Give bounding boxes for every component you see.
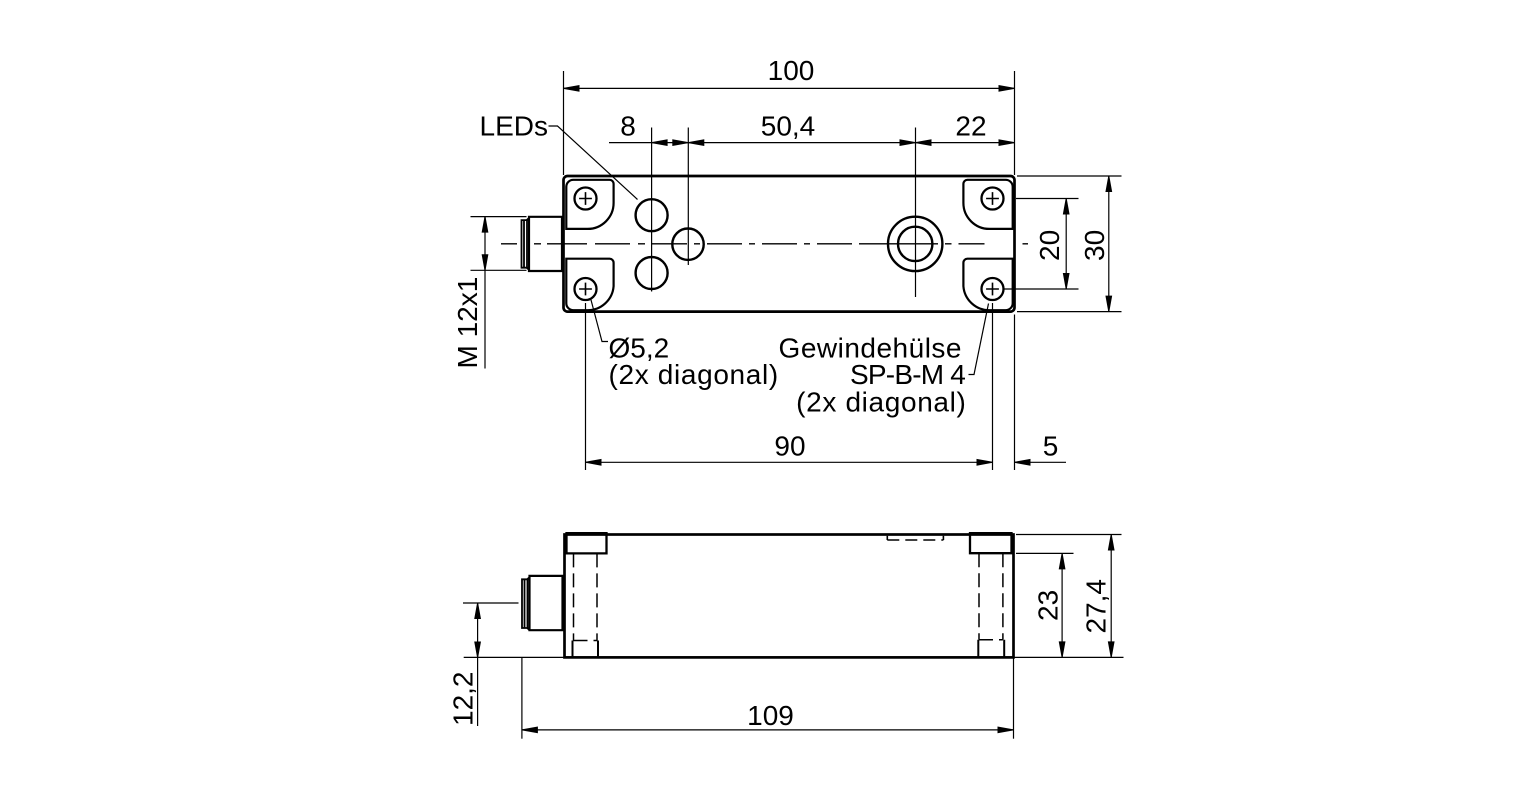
small hole on centerline — [672, 229, 703, 260]
dim 22 line — [916, 142, 1015, 144]
dim 100 extension right — [1014, 71, 1016, 175]
dim M12x1 extension top — [471, 216, 527, 218]
dim 5 tail — [1015, 461, 1067, 463]
connector M12 top view body — [527, 217, 562, 271]
dim 20 line — [1065, 199, 1067, 290]
extension line LED column — [651, 128, 653, 292]
side view left clamp lower part — [573, 641, 599, 657]
side view left clamp block — [567, 533, 607, 553]
svg-text:5: 5 — [1043, 431, 1059, 462]
corner pocket top-left — [566, 180, 613, 229]
LED lower circle — [636, 257, 668, 289]
dim 12,2 extension top — [463, 602, 519, 604]
threaded sleeve inner circle — [898, 227, 932, 261]
corner pocket bottom-left — [566, 259, 613, 311]
dim 109 extension left — [521, 658, 523, 739]
leader hole 5,2 — [591, 298, 609, 342]
corner pocket bottom-right — [963, 259, 1012, 311]
svg-text:27,4: 27,4 — [1081, 579, 1112, 634]
dim 109 line — [522, 729, 1014, 731]
dim 90 arrows — [586, 460, 602, 466]
bottom extension line left — [464, 656, 565, 658]
extension line sleeve column — [915, 128, 917, 298]
svg-text:LEDs: LEDs — [480, 111, 548, 142]
svg-text:100: 100 — [768, 55, 815, 86]
side view left clamp hidden lines — [574, 553, 598, 640]
dim row arrows — [652, 140, 668, 146]
dim 90 line — [586, 461, 993, 463]
svg-text:12,2: 12,2 — [448, 672, 479, 727]
mounting hole bottom-left — [575, 278, 597, 300]
dim 30 extension top — [1017, 175, 1122, 177]
svg-text:(2x diagonal): (2x diagonal) — [796, 387, 966, 418]
corner pocket top-right — [963, 180, 1012, 229]
dim 109 arrows — [522, 727, 538, 733]
leader Gewindehuelse — [969, 304, 989, 375]
side view right clamp block — [970, 533, 1012, 553]
dim 12,2 line — [477, 603, 479, 726]
centerline top view — [501, 243, 1028, 245]
cross top-right hole — [986, 192, 999, 205]
dim 30 line — [1108, 176, 1110, 312]
svg-text:(2x diagonal): (2x diagonal) — [609, 359, 779, 390]
svg-text:50,4: 50,4 — [761, 111, 816, 142]
dim 12,2 arrows — [475, 603, 481, 619]
dim 23 arrows — [1059, 553, 1065, 569]
connector M12 side view cap — [522, 579, 528, 628]
LED upper circle — [636, 199, 668, 231]
dim 20 arrows — [1063, 199, 1069, 215]
side view hidden recess top — [887, 536, 943, 540]
dim 23 line — [1061, 553, 1063, 657]
svg-text:23: 23 — [1033, 590, 1064, 621]
dim 8/50,4 line — [652, 142, 916, 144]
threaded sleeve outer circle — [888, 217, 942, 271]
dim 100 arrows — [564, 86, 580, 92]
cross bottom-right hole — [986, 283, 999, 296]
side view: body outline — [565, 535, 1014, 658]
bottom extension line right — [1014, 656, 1124, 658]
dim 23 extension top — [1016, 552, 1074, 554]
svg-text:8: 8 — [620, 111, 636, 142]
dim 90 extension right — [992, 303, 994, 470]
cross bottom-left hole — [579, 283, 592, 296]
dim 100 line — [564, 87, 1015, 89]
extension line small hole column — [687, 128, 689, 266]
dim 30 arrows — [1106, 176, 1112, 192]
dim 27,4 extension top — [1016, 534, 1122, 536]
leader LEDs — [549, 126, 638, 200]
side view right clamp hidden lines — [979, 553, 1003, 640]
dim 5 arrow — [1015, 460, 1031, 466]
dim M12x1 extension bottom — [471, 269, 527, 271]
svg-text:M 12x1: M 12x1 — [452, 277, 483, 369]
dim 27,4 line — [1110, 535, 1112, 658]
dim M12x1 arrows — [482, 217, 488, 233]
dim M12x1 line — [484, 217, 486, 369]
connector M12 top view cap — [522, 220, 528, 268]
mounting hole top-right — [982, 188, 1004, 210]
dim 100 extension left — [563, 71, 565, 175]
dim 20 extension top — [1016, 198, 1079, 200]
svg-text:20: 20 — [1034, 230, 1065, 261]
dim 90 extension left — [585, 303, 587, 470]
mounting hole top-left — [575, 188, 597, 210]
dim 30 extension bottom — [1017, 311, 1122, 313]
dim 20 extension bottom — [1005, 288, 1079, 290]
connector M12 side view body — [528, 576, 563, 630]
svg-text:30: 30 — [1079, 230, 1110, 261]
dim 8 tail — [609, 142, 652, 144]
top view: sensor body outline — [564, 176, 1015, 312]
dim 5 extension — [1014, 315, 1016, 471]
svg-text:90: 90 — [774, 431, 805, 462]
svg-text:22: 22 — [955, 111, 986, 142]
mounting hole bottom-right — [982, 278, 1004, 300]
side view right clamp lower part — [978, 640, 1004, 657]
svg-text:109: 109 — [747, 700, 794, 731]
dim 109 extension right — [1013, 657, 1015, 738]
svg-text:SP-B-M 4: SP-B-M 4 — [850, 359, 965, 390]
cross top-left hole — [579, 192, 592, 205]
dim 27,4 arrows — [1108, 535, 1114, 551]
